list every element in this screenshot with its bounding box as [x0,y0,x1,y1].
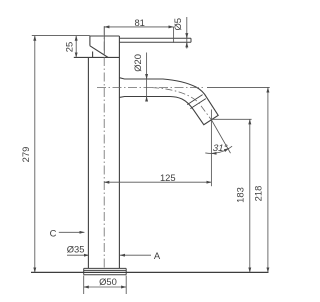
dimension Ø5 [186,17,188,49]
dimension Ø35 with leaders C and A [67,254,151,256]
dimension 25 [75,36,77,58]
counter surface line [31,271,269,273]
dimension 279 [32,36,90,273]
svg-text:Ø20: Ø20 [132,54,143,72]
dimension 218 [207,87,270,272]
centerline horizontal [97,87,203,89]
spout outline [119,78,218,125]
svg-text:Ø35: Ø35 [67,244,85,255]
svg-text:81: 81 [134,17,144,28]
leader C arrow [59,231,85,233]
dimension 183 [211,119,251,272]
dimension Ø50 [84,276,127,295]
centerline spout bend [152,88,211,120]
dimension 31 degrees [205,119,232,153]
svg-text:125: 125 [160,172,176,183]
handle lever rod [119,38,191,42]
svg-text:Ø50: Ø50 [99,276,117,287]
faucet body outline [74,36,120,268]
svg-text:C: C [50,227,57,238]
centerline vertical [103,26,105,270]
dimension 81 [104,27,173,54]
svg-text:Ø5: Ø5 [172,18,183,31]
svg-text:A: A [154,250,161,261]
svg-text:25: 25 [63,42,74,52]
aerator joint ticks [187,95,206,109]
svg-text:279: 279 [20,147,31,163]
svg-text:218: 218 [253,186,264,202]
base flange [84,268,127,274]
dimension 125 [104,110,211,187]
dimension Ø20 [146,53,148,102]
svg-text:183: 183 [235,187,246,203]
svg-text:31°: 31° [212,143,229,154]
